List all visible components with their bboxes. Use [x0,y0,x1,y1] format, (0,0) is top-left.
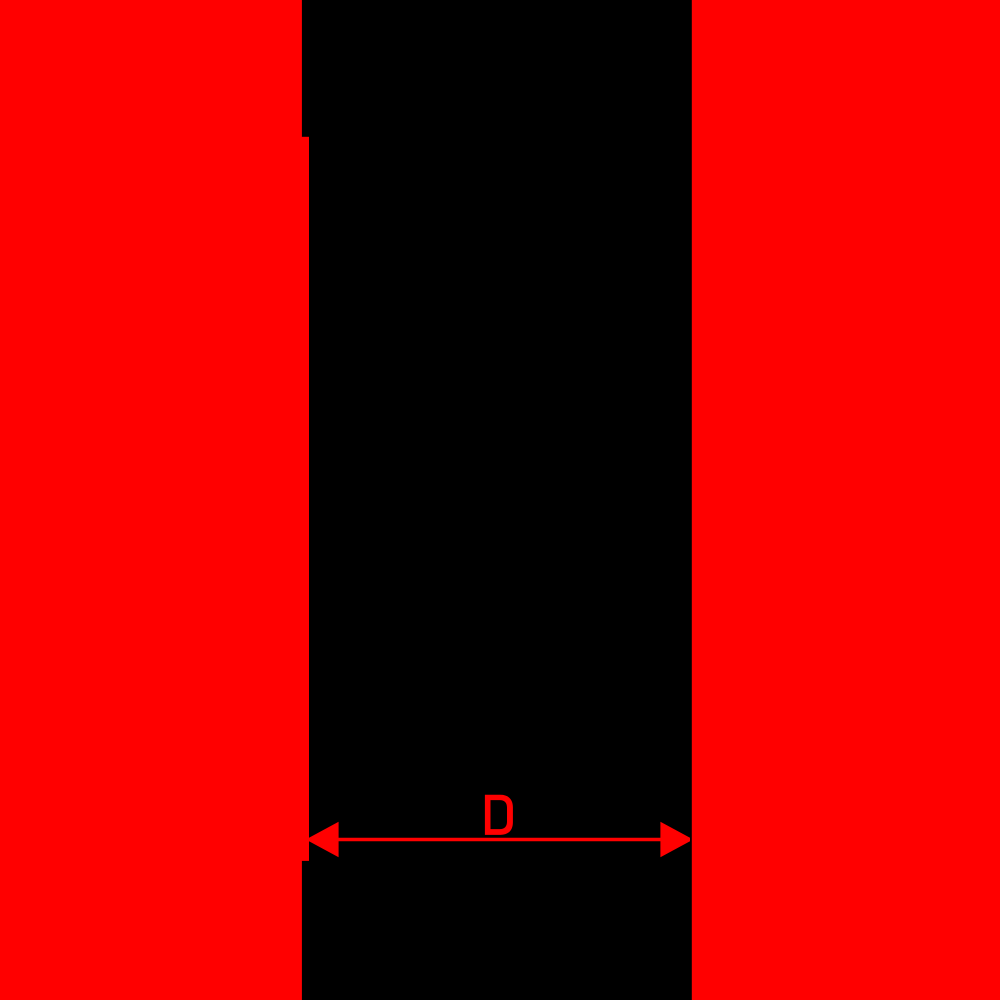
left arrowhead [309,822,339,857]
black channel band [302,0,692,1000]
right arrowhead [660,822,690,857]
red wall sliver on left channel edge [297,137,309,861]
dimension arrow shaft [336,838,662,842]
label D [485,795,513,835]
